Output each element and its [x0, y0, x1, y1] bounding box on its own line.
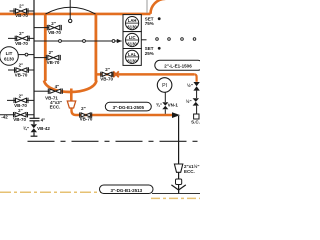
svg-text:25%: 25%: [145, 51, 154, 56]
svg-text:2"-L-E1-1506: 2"-L-E1-1506: [164, 64, 192, 69]
svg-text:LIT: LIT: [6, 51, 13, 56]
svg-text:2": 2": [19, 63, 24, 68]
svg-text:¾": ¾": [23, 125, 29, 131]
svg-text:2": 2": [81, 106, 86, 111]
svg-text:LAH: LAH: [128, 18, 137, 23]
svg-text:½": ½": [187, 82, 193, 88]
svg-text:LIC: LIC: [129, 35, 136, 40]
svg-text:4": 4": [55, 84, 60, 89]
svg-text:2": 2": [49, 50, 54, 55]
svg-text:VN-1: VN-1: [168, 103, 179, 108]
svg-text:VB-70: VB-70: [13, 117, 26, 122]
svg-text:ECC.: ECC.: [184, 169, 195, 174]
svg-text:2": 2": [19, 93, 24, 98]
svg-text:PI: PI: [162, 83, 167, 89]
svg-text:6130: 6130: [127, 58, 137, 63]
svg-text:S.C.: S.C.: [191, 119, 200, 124]
svg-text:4": 4": [41, 117, 46, 122]
svg-text:-42: -42: [1, 115, 8, 120]
svg-text:VB-70: VB-70: [15, 13, 28, 18]
svg-text:VB-70: VB-70: [48, 30, 61, 35]
svg-text:6130: 6130: [4, 57, 15, 62]
svg-text:VB-70: VB-70: [80, 117, 93, 122]
svg-text:6130: 6130: [127, 25, 137, 30]
svg-text:2": 2": [18, 108, 23, 113]
svg-text:LAL: LAL: [128, 52, 137, 57]
svg-text:2": 2": [19, 4, 24, 9]
svg-text:ECC.: ECC.: [50, 104, 61, 109]
svg-text:¾": ¾": [156, 102, 162, 108]
svg-text:½": ½": [186, 98, 192, 104]
svg-text:VB-70: VB-70: [47, 60, 60, 65]
svg-text:VB-70: VB-70: [100, 77, 113, 82]
svg-text:VB-70: VB-70: [15, 73, 28, 78]
svg-text:3"-DG-E1-2505: 3"-DG-E1-2505: [113, 105, 145, 110]
svg-text:2": 2": [19, 31, 24, 36]
svg-text:VB-70: VB-70: [15, 41, 28, 46]
svg-text:VB-42: VB-42: [37, 126, 50, 131]
svg-text:2": 2": [105, 67, 110, 72]
svg-text:3"-DG-B1-2513: 3"-DG-B1-2513: [110, 188, 142, 193]
svg-text:75%: 75%: [145, 21, 154, 26]
svg-text:6130: 6130: [127, 42, 137, 47]
svg-text:2": 2": [51, 21, 56, 26]
